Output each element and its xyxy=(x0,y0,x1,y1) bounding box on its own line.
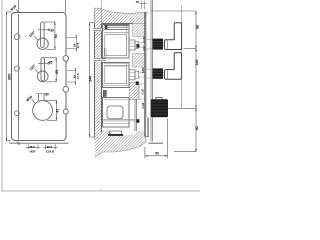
svg-text:38.5: 38.5 xyxy=(47,145,53,149)
trim plate edge-on right view xyxy=(150,0,152,142)
break marks xyxy=(17,142,20,145)
overall height dimension 300 xyxy=(6,12,11,141)
corner radius leader xyxy=(16,9,20,13)
lever 2 height dim xyxy=(45,58,57,82)
knob leader xyxy=(32,99,36,103)
knob side black xyxy=(151,97,168,117)
ground line under plate xyxy=(9,142,69,144)
row 2 cartridge stem xyxy=(129,70,135,80)
svg-text:G1/2: G1/2 xyxy=(142,88,145,94)
wall hatch bottom blob xyxy=(95,131,146,158)
node circle A xyxy=(63,56,69,62)
sleeve lines row2 xyxy=(146,68,152,70)
wall hatch right chunk 3 xyxy=(129,83,139,100)
wall hatch top band xyxy=(95,8,148,23)
row 1 cartridge stem xyxy=(129,40,135,50)
svg-text:COLD: COLD xyxy=(46,150,54,154)
lever 1 stem xyxy=(41,22,45,48)
svg-text:42: 42 xyxy=(55,109,59,113)
thermostat knob xyxy=(33,101,53,121)
svg-text:30: 30 xyxy=(45,93,49,97)
rosette 2 black xyxy=(153,68,164,78)
handle 1 lever side xyxy=(165,23,182,50)
lever 1 leader 120deg xyxy=(34,36,38,40)
svg-text:65: 65 xyxy=(54,34,58,38)
supply stem left row2 xyxy=(94,58,106,60)
plate bottom edge-on xyxy=(149,142,164,144)
svg-text:17.5: 17.5 xyxy=(76,73,80,79)
lever 2 leader xyxy=(35,69,38,73)
screw 1 xyxy=(14,34,20,40)
knob neck lines xyxy=(37,94,39,101)
svg-text:Ø50: Ø50 xyxy=(26,95,34,103)
screw 2 xyxy=(14,66,19,71)
lever 2 diameter line xyxy=(38,62,48,64)
screw 3 xyxy=(14,111,19,116)
COLD inlet dim xyxy=(44,144,58,149)
lever 2 stem xyxy=(41,57,45,81)
svg-text:R10: R10 xyxy=(10,4,17,11)
body row 2 box xyxy=(103,63,130,88)
top extension line left xyxy=(18,0,20,13)
right extension through grips xyxy=(181,5,183,108)
wall hatch front strip xyxy=(95,9,102,140)
handle 2 lever side xyxy=(165,53,182,80)
svg-text:38.5: 38.5 xyxy=(29,145,35,149)
offset dims B xyxy=(67,69,76,85)
svg-text:82: 82 xyxy=(195,126,199,130)
niche height dim 240 xyxy=(90,23,97,138)
rear fitting box xyxy=(139,84,145,99)
wall hatch right chunk 1 xyxy=(133,23,145,36)
svg-text:65: 65 xyxy=(55,70,59,74)
top wall depth dim xyxy=(140,1,142,10)
wall hatch right chunk 2 xyxy=(133,54,145,68)
HOT inlet dim xyxy=(26,144,40,149)
svg-text:300: 300 xyxy=(6,73,11,80)
plate inner edge line xyxy=(18,14,20,140)
wall back face lines xyxy=(144,12,146,137)
right dim chain xyxy=(151,11,196,152)
depth dim 50 xyxy=(144,147,146,158)
svg-text:150: 150 xyxy=(195,60,199,66)
svg-text:HOT: HOT xyxy=(30,150,36,154)
svg-text:17.5: 17.5 xyxy=(76,42,80,48)
border frame xyxy=(2,0,200,191)
svg-text:50: 50 xyxy=(136,0,140,4)
svg-text:240: 240 xyxy=(88,76,92,82)
extension line up from body xyxy=(100,0,102,23)
outlet stem left row1 xyxy=(94,28,105,30)
stem gaps through wall xyxy=(94,28,102,31)
knob height dim 42 xyxy=(45,101,57,121)
node circle B xyxy=(63,87,69,93)
lever 1 diameter line xyxy=(38,29,48,31)
knob cartridge xyxy=(107,106,123,119)
svg-text:88: 88 xyxy=(195,25,199,29)
body row 3 box xyxy=(103,98,130,128)
node circle C xyxy=(63,109,68,114)
svg-text:30: 30 xyxy=(50,28,54,32)
lever 1 rosette xyxy=(37,38,48,49)
lever 1 height dim 65 xyxy=(44,22,55,49)
body row 1 box xyxy=(103,25,130,59)
svg-text:50: 50 xyxy=(155,152,159,156)
sleeve lines row1 xyxy=(146,38,152,40)
drain piece xyxy=(110,131,122,134)
knob neck dim 30 xyxy=(36,93,47,95)
offset dims A xyxy=(67,36,77,51)
wall face step bottom xyxy=(146,118,148,137)
rosette 1 black xyxy=(153,39,164,50)
lever 2 rosette xyxy=(37,71,48,82)
top extension line right xyxy=(65,0,67,13)
plate outline front view xyxy=(12,13,67,141)
